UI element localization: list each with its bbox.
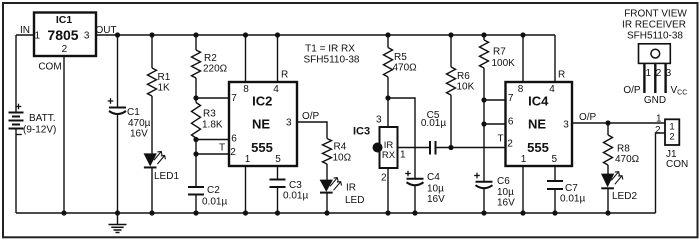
svg-text:1: 1 xyxy=(646,68,652,79)
svg-text:10K: 10K xyxy=(457,82,475,93)
svg-text:R4: R4 xyxy=(334,142,347,153)
svg-text:1: 1 xyxy=(400,150,406,161)
svg-text:555: 555 xyxy=(251,140,273,155)
svg-text:R: R xyxy=(558,70,565,81)
svg-text:IC4: IC4 xyxy=(528,93,549,108)
svg-text:LED1: LED1 xyxy=(154,171,179,182)
svg-text:16V: 16V xyxy=(497,198,515,209)
svg-text:R7: R7 xyxy=(493,47,506,58)
svg-text:SFH5110-38: SFH5110-38 xyxy=(304,55,360,66)
svg-text:C7: C7 xyxy=(565,183,578,194)
svg-text:T: T xyxy=(219,143,225,154)
svg-text:3: 3 xyxy=(666,68,672,79)
svg-text:O/P: O/P xyxy=(302,111,320,122)
svg-text:COM: COM xyxy=(38,62,61,73)
svg-text:100K: 100K xyxy=(492,58,516,69)
svg-text:5: 5 xyxy=(275,154,281,165)
svg-text:2: 2 xyxy=(230,147,236,158)
svg-text:SFH5110-38: SFH5110-38 xyxy=(627,31,683,42)
svg-text:2: 2 xyxy=(62,44,68,55)
svg-text:2: 2 xyxy=(656,68,662,79)
svg-text:2: 2 xyxy=(669,132,674,143)
svg-text:470Ω: 470Ω xyxy=(615,154,640,165)
svg-text:RX: RX xyxy=(382,150,396,161)
svg-text:470Ω: 470Ω xyxy=(393,63,418,74)
svg-text:3: 3 xyxy=(84,30,90,41)
svg-text:0.01µ: 0.01µ xyxy=(560,194,585,205)
svg-text:R8: R8 xyxy=(617,144,630,155)
svg-text:OUT: OUT xyxy=(95,25,116,36)
svg-text:IR: IR xyxy=(346,183,356,194)
svg-text:IC2: IC2 xyxy=(252,93,272,108)
svg-text:3: 3 xyxy=(563,120,569,131)
svg-text:220Ω: 220Ω xyxy=(203,64,228,75)
svg-text:NE: NE xyxy=(528,117,546,132)
svg-text:7: 7 xyxy=(231,93,237,104)
svg-text:R3: R3 xyxy=(203,109,216,120)
svg-text:CON: CON xyxy=(666,159,688,170)
svg-text:T1 = IR RX: T1 = IR RX xyxy=(305,44,355,55)
svg-text:C4: C4 xyxy=(427,172,440,183)
svg-text:(9-12V): (9-12V) xyxy=(23,125,56,136)
svg-text:GND: GND xyxy=(644,95,666,106)
svg-text:1.8K: 1.8K xyxy=(202,120,223,131)
svg-text:R1: R1 xyxy=(158,72,171,83)
svg-text:6: 6 xyxy=(508,117,514,128)
svg-text:8: 8 xyxy=(518,84,524,95)
svg-text:1: 1 xyxy=(35,30,41,41)
svg-text:4: 4 xyxy=(549,84,555,95)
svg-text:5: 5 xyxy=(552,154,558,165)
svg-text:T: T xyxy=(497,134,503,145)
svg-text:2: 2 xyxy=(381,173,387,184)
svg-text:R5: R5 xyxy=(394,52,407,63)
svg-text:3: 3 xyxy=(376,115,382,126)
svg-text:10µ: 10µ xyxy=(497,187,514,198)
svg-text:470µ: 470µ xyxy=(128,118,151,129)
svg-text:0.01µ: 0.01µ xyxy=(202,197,227,208)
svg-text:2: 2 xyxy=(655,125,661,136)
svg-text:6: 6 xyxy=(231,134,237,145)
svg-text:C6: C6 xyxy=(497,176,510,187)
svg-text:4: 4 xyxy=(273,84,279,95)
svg-text:IN: IN xyxy=(20,25,30,36)
svg-text:3: 3 xyxy=(286,118,292,129)
svg-text:1: 1 xyxy=(245,154,251,165)
svg-text:IC3: IC3 xyxy=(353,126,370,138)
svg-text:16V: 16V xyxy=(427,194,445,205)
svg-text:NE: NE xyxy=(252,117,270,132)
svg-text:C3: C3 xyxy=(289,180,302,191)
svg-text:C2: C2 xyxy=(207,185,220,196)
svg-text:BATT.: BATT. xyxy=(29,113,55,124)
svg-text:O/P: O/P xyxy=(579,112,597,123)
svg-text:R: R xyxy=(281,70,288,81)
svg-text:8: 8 xyxy=(243,84,249,95)
svg-text:2: 2 xyxy=(507,139,513,150)
svg-text:10µ: 10µ xyxy=(427,184,444,195)
svg-text:0.01µ: 0.01µ xyxy=(421,118,446,129)
svg-text:1K: 1K xyxy=(158,83,171,94)
svg-text:LED: LED xyxy=(345,195,364,206)
svg-text:1: 1 xyxy=(656,114,662,125)
svg-text:1: 1 xyxy=(521,154,527,165)
svg-text:FRONT VIEW: FRONT VIEW xyxy=(624,9,687,20)
svg-text:16V: 16V xyxy=(130,129,148,140)
svg-text:IR RECEIVER: IR RECEIVER xyxy=(622,20,686,31)
svg-text:0.01µ: 0.01µ xyxy=(283,191,308,202)
svg-text:C1: C1 xyxy=(127,107,140,118)
svg-text:R6: R6 xyxy=(457,71,470,82)
svg-text:IC1: IC1 xyxy=(56,14,73,26)
svg-text:10Ω: 10Ω xyxy=(333,153,352,164)
svg-text:7805: 7805 xyxy=(47,27,78,43)
svg-text:O/P: O/P xyxy=(623,85,641,96)
svg-text:LED2: LED2 xyxy=(612,191,637,202)
svg-text:555: 555 xyxy=(527,140,549,155)
svg-text:R2: R2 xyxy=(204,53,217,64)
svg-text:7: 7 xyxy=(508,93,514,104)
